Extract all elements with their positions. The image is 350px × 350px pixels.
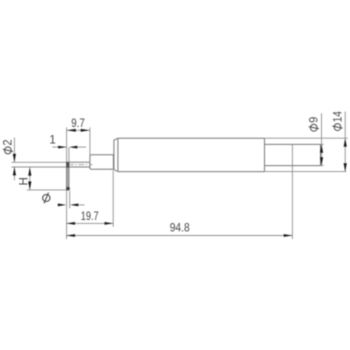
stylus disc tip (vertical blade) (67, 162, 69, 190)
dimension 19.7 (66, 211, 113, 225)
extension line: 94.8 right end through Φ9 section (291, 144, 293, 239)
body top and bottom edges extended right for Φ14 dim (265, 138, 348, 171)
extension line: right end of 9.7 dim down to nose top (89, 127, 91, 154)
svg-text:1: 1 (49, 135, 55, 147)
dimension Φ (ball diameter) (43, 193, 85, 207)
main body Φ14 with chamfered left end (114, 138, 265, 171)
ball tip at disc bottom (66, 187, 70, 191)
shaft centerline (dash-dot) (68, 164, 92, 166)
dimension 1 (disc thickness) (49, 135, 86, 149)
extension lines: shaft edges extended left for Φ2 dim (12, 162, 67, 167)
svg-text:94.8: 94.8 (170, 222, 190, 234)
extension line: disc right edge up to 1-dim (68, 147, 70, 162)
right section Φ9 (265, 144, 321, 165)
svg-text:2: 2 (3, 139, 15, 145)
dimension 9.7 (67, 118, 90, 132)
extension line: disc left edge vertical from 9.7 dim down to 94.8 dim (66, 127, 68, 239)
nose cylinder (90, 155, 114, 170)
dimension Φ14 (332, 111, 346, 172)
dimension Φ9 (309, 113, 324, 165)
extension of Φ9 edges to Φ9 dim line (321, 144, 324, 165)
dimension H (19, 167, 32, 190)
extension line: body left end down to 19.7 dim (112, 171, 114, 227)
svg-text:14: 14 (332, 111, 344, 123)
svg-text:9.7: 9.7 (71, 118, 85, 130)
junction darkening where shaft meets disc (66, 162, 69, 168)
stylus shaft Φ2 top and bottom edges (69, 162, 90, 167)
dimension Φ2 (shaft diameter) (3, 138, 16, 181)
svg-text:9: 9 (309, 117, 321, 123)
extension line: disc bottom edge extended left for H dim (27, 189, 67, 191)
svg-text:H: H (19, 177, 31, 185)
dimension 94.8 (66, 222, 292, 237)
svg-text:19.7: 19.7 (81, 211, 99, 223)
extension line: ball right edge down to Φ dim (69, 191, 71, 209)
